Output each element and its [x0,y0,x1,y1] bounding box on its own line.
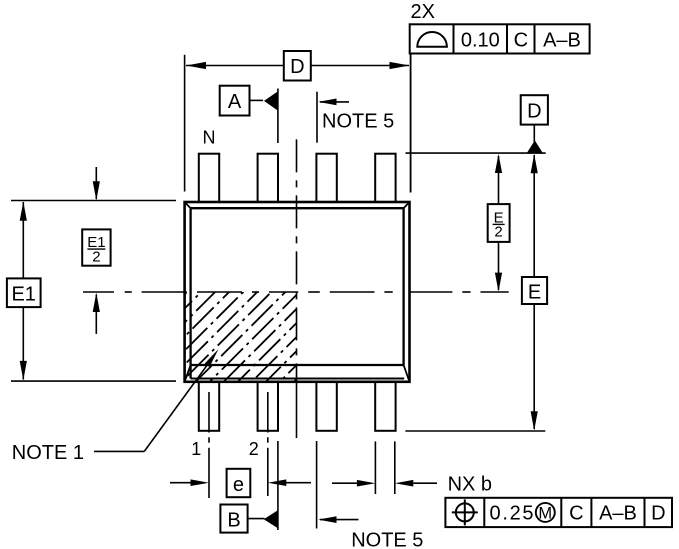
dimension E1 extension top [11,200,176,202]
datum A triangle [264,91,278,110]
label box e [227,469,251,497]
b extension line right [394,441,396,494]
dimension D extension line left [184,55,186,192]
datum A target line [277,89,279,144]
note 1 hatched region [79,270,406,400]
datum B target line [277,441,279,530]
bottom pin 2 [258,380,278,431]
svg-text:e: e [233,474,244,496]
note 5 bottom target line [316,441,318,529]
dimension E line [533,155,535,277]
true position symbol [456,503,474,521]
package corner diagonal top-left [185,202,191,208]
datum A box [220,86,250,116]
dimension E/2 line lower [498,242,500,290]
dimension D extension line right [410,54,412,193]
svg-text:D: D [651,503,665,525]
dimension D left arrowhead [186,62,206,69]
datum B triangle [264,510,278,528]
bottom pin 4 [375,380,395,431]
package body bottom rim line [191,378,405,380]
svg-text:2: 2 [249,439,259,459]
svg-text:A–B: A–B [543,29,581,51]
package body outer rect [185,202,410,382]
label box D [284,51,311,81]
label box E [522,277,547,304]
note 5 bottom arrow [320,519,359,521]
datum line top (pin tips right) [406,152,546,154]
package body inner bottom line [191,364,404,366]
svg-text:E: E [528,282,541,304]
svg-text:C: C [514,29,528,51]
package corner diagonal top-right [404,202,410,208]
note 5 top arrow [320,101,349,103]
pin 1 centerline extension [208,392,210,498]
feature control frame bottom (position 0.25 M C A-B D) [445,498,672,527]
profile of surface symbol [417,32,447,47]
datum D connector [533,125,535,142]
svg-text:0.25: 0.25 [490,503,536,525]
dimension E1 line [22,202,24,380]
datum A leader [250,99,264,101]
package body inner left line [189,208,191,378]
dimension e right arrow [285,482,311,484]
dimension E/2 line upper [498,156,500,204]
dimension D right arrowhead [390,62,410,69]
label box E/2 [488,204,510,242]
datum B box [220,505,247,533]
svg-text:N: N [203,128,216,148]
svg-text:B: B [227,509,240,531]
extension line bottom pin tips right [405,430,545,432]
top pin 2 [258,154,278,204]
svg-text:2: 2 [92,248,100,265]
svg-text:0.10: 0.10 [461,29,500,51]
svg-text:A–B: A–B [599,503,637,525]
package corner diagonal bottom-right [404,365,410,382]
svg-text:E1: E1 [11,284,35,306]
package body inner top line [191,207,404,209]
svg-text:A: A [228,91,242,113]
svg-text:NX b: NX b [448,474,492,496]
top pin 1 [199,154,219,204]
svg-text:M: M [538,504,552,522]
E1/2 lower arrow [95,295,97,334]
horizontal centerline [83,291,509,293]
vertical centerline [296,139,298,438]
top pin 3 [316,154,336,204]
M circle modifier [536,503,555,522]
E1/2 upper arrow [95,167,97,199]
svg-text:NOTE 5: NOTE 5 [351,529,423,549]
dimension b left arrow [332,482,357,484]
svg-text:2: 2 [494,224,502,241]
vertical line from FCF down [410,54,412,193]
bottom pin 1 [199,380,219,431]
datum B leader [248,518,265,520]
dimension b right arrow [413,482,437,484]
dimension D line [186,65,409,67]
svg-text:D: D [290,56,304,78]
datum D box [521,95,548,124]
note 1 arrowhead [205,349,219,367]
svg-text:D: D [527,100,541,122]
b extension line left [374,441,376,494]
note 5 top target line [316,92,318,143]
package body inner right line [402,208,404,365]
svg-text:C: C [569,503,583,525]
bottom pin 3 [316,380,336,431]
svg-text:1: 1 [191,439,201,459]
dimension E1 extension bottom [11,380,176,382]
label box E1 [7,278,41,307]
top pin 4 [375,154,395,204]
svg-text:NOTE 1: NOTE 1 [12,442,84,464]
svg-text:2X: 2X [411,1,435,23]
pin 2 centerline extension [267,392,269,496]
dimension e left arrow [170,482,192,484]
package corner diagonal bottom-left [185,365,191,382]
datum D triangle [527,140,543,153]
note 1 leader [94,450,144,452]
feature control frame top (profile 0.10 C A-B) [410,24,590,53]
svg-text:NOTE 5: NOTE 5 [322,110,394,132]
label box E1/2 [82,229,110,265]
